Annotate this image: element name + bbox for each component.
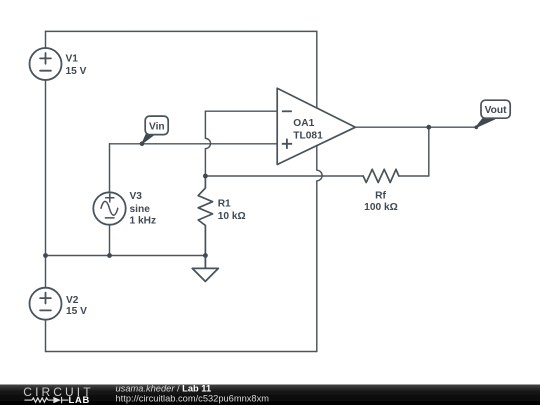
wire left rail V1 to V2 [45, 80, 47, 288]
node junction output / feedback [426, 125, 431, 130]
wire feedback left segment [205, 175, 363, 177]
wire V3 top stem [109, 144, 111, 193]
svg-text:sine: sine [130, 204, 151, 215]
node junction R1 bottom / ground [203, 253, 208, 258]
svg-text:1 kHz: 1 kHz [130, 216, 157, 227]
footer bar [0, 384, 540, 405]
wire right vertical (supply) with hop [317, 31, 322, 351]
svg-text:LAB: LAB [69, 395, 91, 405]
resistor R1 [198, 176, 212, 256]
wire Vin net to + input [110, 143, 278, 145]
wire inverting input horizontal [205, 110, 277, 112]
logo schematic line: wire, resistor zigzag, diode [24, 397, 68, 403]
voltage source V2 [30, 288, 62, 320]
op-amp OA1 [277, 88, 355, 164]
wire feedback right segment [399, 175, 429, 177]
svg-text:http://circuitlab.com/c532pu6m: http://circuitlab.com/c532pu6mnx8xm [116, 394, 270, 404]
svg-text:TL081: TL081 [293, 130, 323, 141]
logo diode triangle [53, 397, 61, 403]
voltage source V1 [30, 48, 62, 80]
svg-text:15 V: 15 V [66, 66, 87, 77]
sine source V3 [93, 192, 125, 224]
node junction V3 bottom [107, 253, 112, 258]
svg-text:V2: V2 [66, 295, 79, 306]
svg-text:V1: V1 [66, 53, 79, 64]
wire bottom rail [46, 351, 317, 353]
ground [192, 256, 218, 282]
svg-text:Vin: Vin [149, 122, 165, 133]
svg-text:15 V: 15 V [66, 306, 87, 317]
svg-text:OA1: OA1 [293, 118, 314, 129]
svg-text:usama.kheder / Lab 11: usama.kheder / Lab 11 [116, 384, 212, 394]
wire V3 bottom stem [109, 225, 111, 256]
node junction inverting input / R1 top [203, 174, 208, 179]
svg-text:10 kΩ: 10 kΩ [218, 211, 246, 222]
svg-text:R1: R1 [218, 198, 231, 209]
svg-text:Rf: Rf [375, 191, 386, 202]
node junction V- left rail [43, 253, 48, 258]
wire mid rail (V- node to R1 bottom) [46, 255, 206, 257]
resistor Rf [363, 169, 399, 182]
wire top rail [46, 30, 317, 32]
flag Vin [140, 116, 169, 146]
wire inverting input vertical with hop [205, 111, 210, 176]
svg-text:Vout: Vout [485, 105, 507, 116]
wire feedback vertical up to output [428, 127, 430, 176]
flag Vout [474, 100, 510, 129]
wire left rail V2 bottom stem [45, 320, 47, 352]
svg-text:V3: V3 [130, 191, 143, 202]
wire output [355, 126, 476, 128]
wire left rail V1 top stem [45, 31, 47, 48]
svg-text:100 kΩ: 100 kΩ [364, 202, 398, 213]
